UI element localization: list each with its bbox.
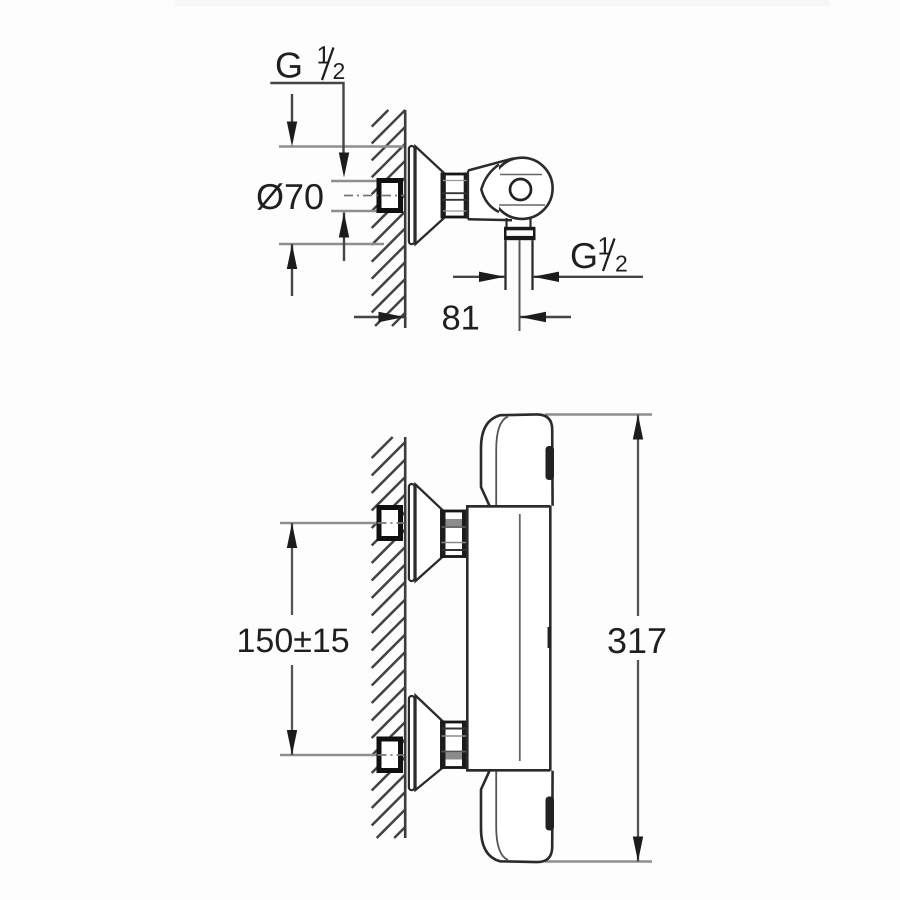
svg-text:317: 317: [607, 620, 667, 661]
svg-text:81: 81: [442, 300, 480, 338]
svg-text:2: 2: [615, 251, 628, 277]
svg-text:150±15: 150±15: [237, 622, 350, 660]
svg-text:Ø70: Ø70: [256, 176, 324, 217]
svg-text:G: G: [570, 235, 598, 276]
svg-text:G: G: [275, 45, 303, 86]
svg-text:2: 2: [333, 58, 346, 84]
